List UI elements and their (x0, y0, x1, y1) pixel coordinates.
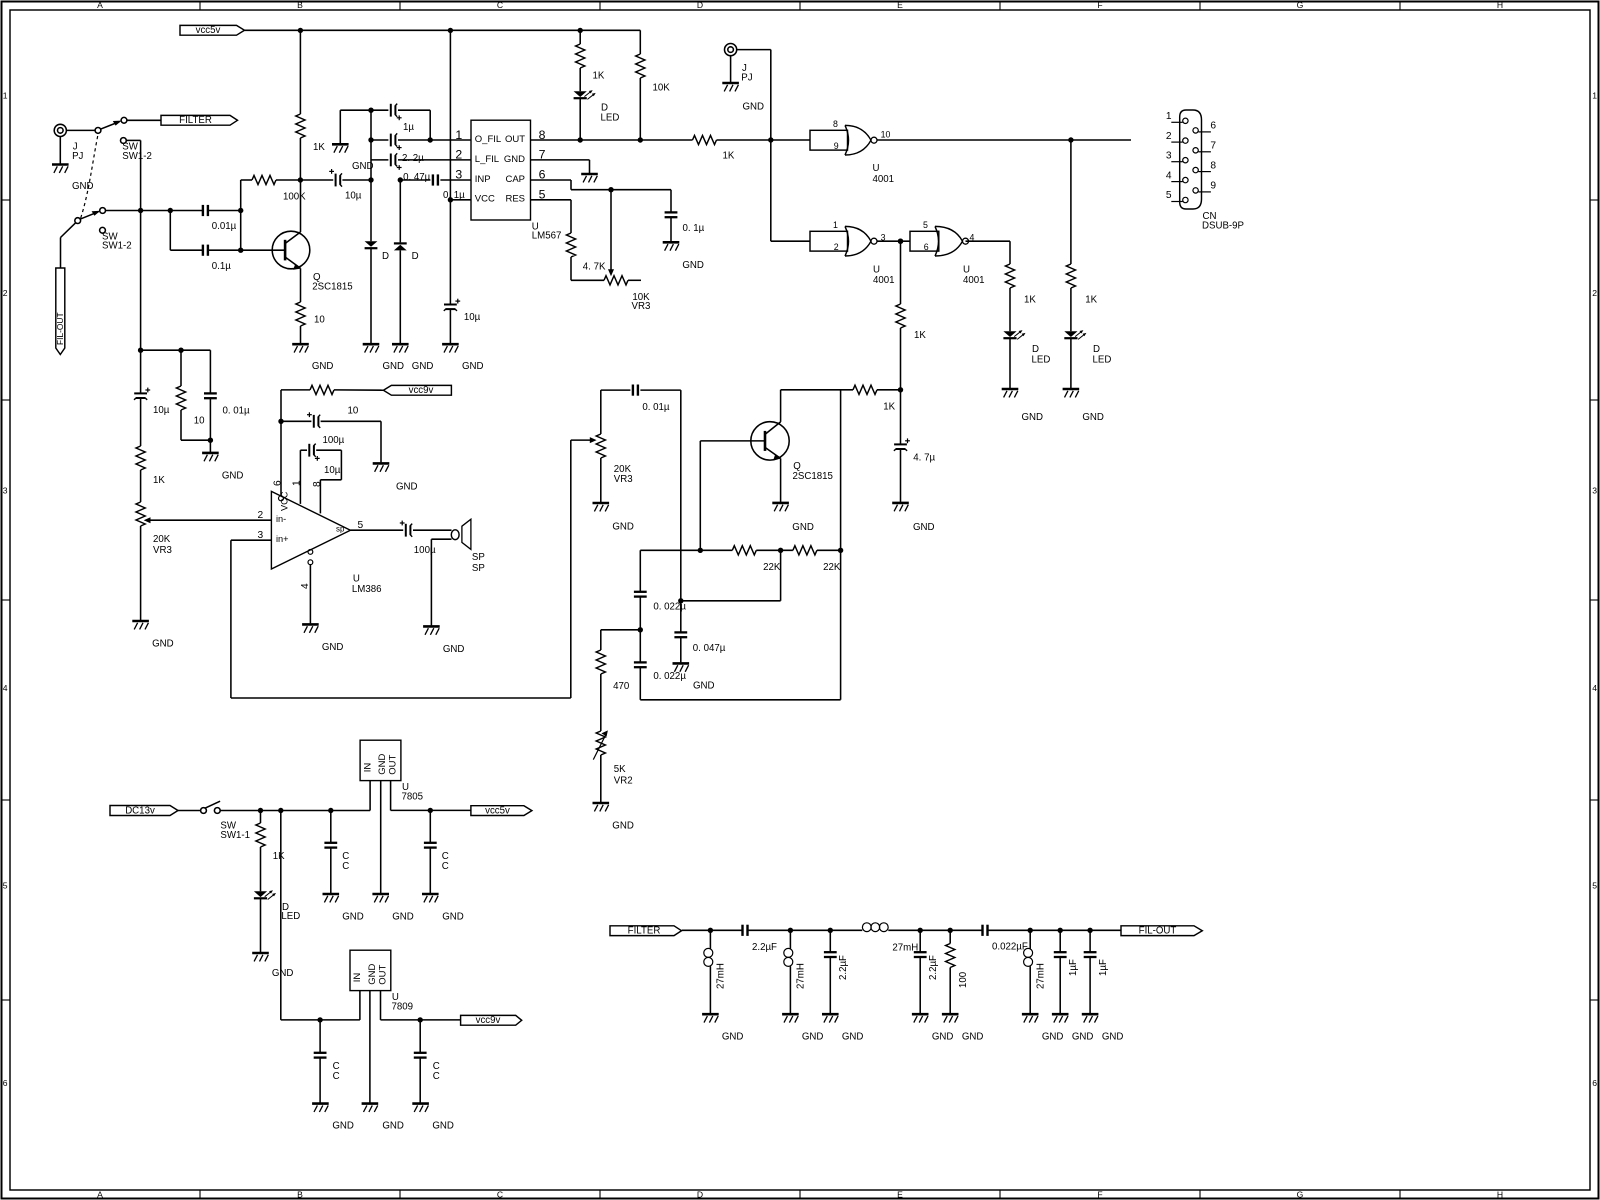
svg-text:0.1µ: 0.1µ (212, 261, 231, 272)
svg-text:D: D (697, 1189, 703, 1199)
capacitor 100u (output) (400, 521, 452, 556)
svg-text:FIL-OUT: FIL-OUT (1139, 926, 1177, 937)
wire gate net down (771, 140, 810, 241)
svg-text:B: B (297, 0, 303, 10)
ground led D4 (1002, 389, 1043, 423)
svg-text:C: C (433, 1071, 440, 1082)
node vcc5v/R2 (578, 28, 583, 33)
wire twin-T bottom (640, 550, 840, 700)
svg-text:3: 3 (1166, 150, 1172, 161)
svg-text:LED: LED (281, 911, 300, 922)
svg-text:1: 1 (833, 220, 838, 230)
ground audio RC (202, 440, 243, 481)
svg-text:10: 10 (194, 415, 205, 426)
resistor R16 100 (946, 930, 969, 1013)
svg-text:GND: GND (1042, 1031, 1064, 1042)
wire vcc rail x450 (449, 30, 451, 199)
svg-text:GND: GND (412, 361, 434, 372)
svg-text:D: D (382, 251, 389, 262)
op-amp U3 LM386 (271, 491, 381, 595)
svg-text:1K: 1K (313, 142, 325, 153)
svg-text:D: D (697, 0, 703, 10)
node twin-T base (698, 548, 703, 553)
svg-text:1K: 1K (1085, 295, 1097, 306)
node L2 (788, 928, 793, 933)
svg-text:LED: LED (1093, 355, 1112, 366)
svg-text:2. 2µ: 2. 2µ (402, 153, 424, 164)
capacitor 2.2u (371, 153, 471, 170)
switch SW1-2b (75, 208, 132, 252)
svg-text:2SC1815: 2SC1815 (312, 282, 352, 293)
svg-text:GND: GND (693, 680, 715, 691)
svg-text:GND: GND (1072, 1031, 1094, 1042)
capacitor 1uF (a) (1054, 930, 1079, 1013)
capacitor 2.2uF (shunt a) (824, 930, 849, 1013)
wire 7805 IN (369, 781, 371, 811)
svg-text:FILTER: FILTER (628, 926, 661, 937)
wire filter rail 1 (682, 929, 743, 931)
resistor R7 1K (896, 304, 926, 390)
svg-text:FIL-OUT: FIL-OUT (55, 312, 65, 345)
capacitor C4 (414, 1020, 440, 1103)
ground speaker (423, 626, 464, 655)
node pin6/100u (278, 419, 283, 424)
capacitor 0.1u (pin6) (665, 190, 705, 242)
node diode2 (398, 177, 403, 182)
diode D1 (365, 241, 389, 343)
wire collector rail (781, 389, 853, 391)
node gate2 out (898, 239, 903, 244)
capacitor 0.47u (400, 172, 471, 185)
svg-text:0.01µ: 0.01µ (212, 221, 237, 232)
wire speaker gnd (431, 539, 451, 625)
svg-text:C: C (342, 861, 349, 872)
svg-text:GND: GND (722, 1031, 744, 1042)
ground D2 (392, 344, 433, 372)
node L1 (708, 928, 713, 933)
svg-text:2.2µF: 2.2µF (838, 955, 849, 980)
node pin8 net / gate1 (768, 137, 773, 142)
node R100 (948, 928, 953, 933)
svg-text:4001: 4001 (963, 275, 985, 286)
node L4 (1028, 928, 1033, 933)
svg-text:DSUB-9P: DSUB-9P (1202, 221, 1244, 232)
svg-text:GND: GND (1082, 412, 1104, 423)
svg-text:VR3: VR3 (614, 474, 633, 485)
wire Q2 base down (699, 441, 701, 550)
capacitor 1u (b) (371, 133, 471, 150)
wiper VR3 osc (571, 437, 597, 443)
svg-text:100: 100 (958, 971, 969, 988)
capacitor 10u (series) (300, 169, 371, 201)
svg-text:IN: IN (352, 973, 363, 983)
svg-text:1: 1 (455, 128, 462, 142)
capacitor 10u (bootstrap) (300, 444, 341, 514)
svg-text:1: 1 (1592, 91, 1597, 101)
svg-text:RES: RES (505, 194, 525, 205)
ground jack J1 (52, 137, 94, 193)
svg-text:7809: 7809 (392, 1002, 414, 1013)
svg-text:7805: 7805 (402, 791, 424, 802)
svg-text:SW1-2: SW1-2 (102, 241, 132, 252)
wire cap rail vertical (370, 110, 372, 241)
ground J2 (722, 56, 764, 113)
svg-text:GND: GND (842, 1031, 864, 1042)
node gate1 out / led3 (1068, 137, 1073, 142)
svg-text:GND: GND (743, 102, 765, 113)
resistor R1 1K (296, 30, 326, 180)
ground L4 (1022, 1014, 1064, 1042)
gate U1a 4001 (8,9->10) (771, 119, 894, 185)
led D6 (254, 890, 300, 952)
svg-text:GND: GND (432, 1121, 454, 1132)
wire Q2 collector (780, 390, 782, 422)
svg-text:2: 2 (1592, 288, 1597, 298)
led D4 (1003, 330, 1050, 388)
svg-text:GND: GND (802, 1031, 824, 1042)
svg-text:4: 4 (1166, 170, 1172, 181)
node C7 filt (1058, 928, 1063, 933)
svg-text:1K: 1K (723, 150, 735, 161)
svg-text:U: U (873, 265, 880, 276)
svg-text:INP: INP (475, 174, 491, 185)
wire twin-T left (639, 550, 641, 591)
wire LM567 pin5 (531, 200, 572, 233)
svg-text:0. 022µ: 0. 022µ (653, 602, 686, 613)
svg-text:470: 470 (613, 681, 630, 692)
capacitor 0.047u (674, 601, 725, 663)
ground 4.7u (892, 503, 934, 533)
svg-text:6: 6 (272, 480, 283, 486)
node pin6/wiper (608, 187, 613, 192)
svg-text:A: A (97, 1189, 103, 1199)
svg-text:SW1-2: SW1-2 (122, 151, 152, 162)
ground C2 (422, 894, 464, 922)
svg-text:H: H (1497, 1189, 1503, 1199)
ground C1 (323, 894, 364, 922)
wire vcc5v corner down to R3 (639, 30, 641, 54)
resistor 10 (Q1 emitter) (296, 302, 325, 344)
svg-text:vcc9v: vcc9v (409, 385, 434, 396)
svg-text:27mH: 27mH (795, 963, 806, 989)
svg-text:GND: GND (932, 1031, 954, 1042)
svg-text:GND: GND (462, 361, 484, 372)
wire switch throw2 (126, 140, 140, 210)
net label FIL-OUT (bottom) (1121, 926, 1202, 937)
svg-text:2SC1815: 2SC1815 (793, 471, 833, 482)
svg-text:E: E (897, 1189, 903, 1199)
svg-text:1K: 1K (1024, 295, 1036, 306)
node input/x140 (138, 208, 143, 213)
capacitor 0.022u (a) (634, 592, 686, 630)
svg-text:VR3: VR3 (632, 301, 651, 312)
svg-text:in-: in- (276, 514, 286, 524)
wire J2 to gate net (737, 50, 771, 140)
svg-text:3: 3 (3, 486, 8, 496)
svg-text:U: U (873, 163, 880, 174)
svg-text:GND: GND (392, 911, 414, 922)
resistor R8 1K (853, 385, 901, 412)
wire vcc5v rail (245, 29, 641, 31)
inductor L2 27mH (784, 930, 807, 1013)
node pin1 cap (428, 137, 433, 142)
wire Q1 emitter (300, 268, 302, 302)
wire gate2 out (877, 240, 910, 242)
wire pin5 to VR3 (571, 279, 604, 281)
resistor R11 470 (596, 650, 630, 731)
capacitor 0.022uF (series) (983, 925, 1028, 953)
ground 7805 (372, 894, 413, 922)
svg-text:sp: sp (336, 524, 345, 533)
node C in (328, 808, 333, 813)
ground 1uF b (1082, 1014, 1124, 1042)
ground LM567 pin7 (581, 174, 598, 182)
svg-text:GND: GND (792, 522, 814, 533)
svg-text:4: 4 (1592, 683, 1597, 693)
node audio rail mid (178, 348, 183, 353)
regulator U5 7809 (350, 950, 413, 1012)
svg-text:1K: 1K (914, 330, 926, 341)
svg-text:22K: 22K (763, 562, 781, 573)
wire VCC pin (443, 190, 471, 201)
wire midpoint dogleg (681, 550, 781, 601)
wire gate2out down (900, 241, 902, 304)
capacitor C2 (424, 810, 449, 893)
capacitor C3 (314, 1020, 340, 1103)
inductor L3 27mH (series) (862, 923, 918, 954)
capacitor 4.7u (894, 390, 936, 502)
svg-text:6: 6 (3, 1078, 8, 1088)
svg-text:1K: 1K (273, 851, 285, 862)
svg-text:VR3: VR3 (153, 545, 172, 556)
diode D2 (394, 180, 419, 344)
svg-text:10µ: 10µ (324, 465, 341, 476)
svg-text:1µF: 1µF (1098, 959, 1109, 976)
capacitor 10u (audio in) (134, 350, 170, 446)
svg-text:10µ: 10µ (153, 405, 170, 416)
ground C3 (312, 1104, 354, 1132)
svg-text:GND: GND (152, 638, 174, 649)
svg-text:vcc9v: vcc9v (476, 1015, 501, 1026)
inductor L4 27mH (1024, 930, 1047, 1013)
ground R16 (942, 1014, 984, 1042)
wire twin-T right up (840, 390, 842, 551)
node audio gnd (208, 438, 213, 443)
wire twin-T top (640, 549, 732, 551)
svg-text:4001: 4001 (873, 275, 895, 286)
svg-text:F: F (1097, 1189, 1102, 1199)
svg-text:10µ: 10µ (345, 190, 362, 201)
ground 7809 (362, 1104, 404, 1132)
svg-text:2.2µF: 2.2µF (928, 955, 939, 980)
svg-text:B: B (297, 1189, 303, 1199)
wire x140 middle (140, 211, 142, 351)
wire feedback vertical (240, 180, 242, 250)
wire gate1 out (877, 139, 1131, 141)
svg-text:A: A (97, 0, 103, 10)
svg-text:GND: GND (332, 1121, 354, 1132)
net label FILTER (bottom) (610, 926, 682, 937)
svg-text:SW1-1: SW1-1 (220, 830, 250, 841)
svg-text:0. 47µ: 0. 47µ (403, 172, 431, 183)
svg-text:GND: GND (272, 968, 294, 979)
node led branch (258, 808, 263, 813)
ground Q1 emitter (292, 344, 333, 372)
ground led D5 (1063, 389, 1104, 423)
capacitor 0.1u (input) (203, 245, 231, 272)
node 7809 C in (317, 1017, 322, 1022)
wire 7809 GND (369, 991, 371, 1103)
node base (238, 248, 243, 253)
ground vcc bypass (442, 344, 483, 372)
svg-text:C: C (442, 861, 449, 872)
svg-text:100µ: 100µ (414, 545, 436, 556)
ground 100u (373, 421, 418, 492)
node input/C0.1u (168, 208, 173, 213)
node 7809 branch (278, 808, 283, 813)
wire SW to 7805 (220, 810, 370, 812)
svg-text:PJ: PJ (72, 151, 83, 162)
svg-text:10: 10 (314, 315, 325, 326)
svg-text:4: 4 (3, 683, 8, 693)
node twin-T right (838, 548, 843, 553)
wire filter rail 2 (748, 929, 863, 931)
svg-text:20K: 20K (153, 534, 171, 545)
svg-text:9: 9 (1210, 181, 1216, 192)
svg-text:GND: GND (962, 1031, 984, 1042)
svg-text:CAP: CAP (505, 174, 525, 185)
svg-text:10: 10 (881, 130, 891, 140)
svg-text:VR2: VR2 (614, 775, 633, 786)
ground VR3 vol (132, 621, 173, 649)
node diode1 (368, 177, 373, 182)
ground 1uF a (1052, 1014, 1094, 1042)
wire VR3 wiper (608, 190, 614, 277)
svg-text:in+: in+ (276, 534, 289, 544)
svg-text:5: 5 (3, 881, 8, 891)
svg-text:5: 5 (1592, 881, 1597, 891)
wire jack to switch (66, 129, 95, 131)
svg-text:GND: GND (383, 361, 405, 372)
wire 7805 GND (380, 781, 382, 893)
svg-text:GND: GND (72, 181, 94, 192)
capacitor 1uF (b) (1084, 930, 1109, 1013)
svg-text:FILTER: FILTER (179, 115, 212, 126)
capacitor 0.01u (osc) (601, 385, 681, 413)
capacitor C1 (324, 811, 349, 894)
node C8 filt (1087, 928, 1092, 933)
capacitor 10u (vcc bypass) (444, 200, 481, 344)
wiper VR3 vol (144, 517, 272, 523)
svg-text:IN: IN (362, 763, 373, 773)
svg-text:GND: GND (322, 642, 344, 653)
svg-text:5K: 5K (614, 764, 626, 775)
svg-text:U: U (963, 265, 970, 276)
capacitor 0.01u (audio) (204, 350, 250, 440)
svg-text:GND: GND (367, 964, 378, 985)
svg-text:6: 6 (1592, 1078, 1597, 1088)
svg-text:7: 7 (1210, 140, 1216, 151)
svg-text:GND: GND (1102, 1031, 1124, 1042)
svg-text:0. 022µ: 0. 022µ (653, 671, 686, 682)
svg-text:G: G (1297, 0, 1304, 10)
switch SW1-1 (201, 801, 250, 841)
wire out pin5 (350, 520, 403, 531)
capacitor 0.01u (input) (203, 205, 237, 232)
node vcc5v/R1 (298, 28, 303, 33)
regulator U4 7805 (360, 740, 423, 802)
svg-text:DC13v: DC13v (125, 806, 155, 817)
capacitor 2.2uF (shunt b) (914, 930, 939, 1013)
wire filter rail 3 (888, 929, 982, 931)
resistor R12 1K (136, 446, 165, 502)
svg-text:0. 01µ: 0. 01µ (642, 402, 670, 413)
node mid 22K (778, 548, 783, 553)
svg-text:GND: GND (396, 482, 418, 493)
svg-text:H: H (1497, 0, 1503, 10)
potentiometer VR3 10K (604, 276, 650, 312)
node base top (238, 208, 243, 213)
wire LM567 pin7 gnd (531, 160, 590, 173)
node LM567 VCC (448, 197, 453, 202)
wire pin8 (312, 481, 323, 487)
resistor R15 1K (256, 811, 285, 892)
svg-text:4001: 4001 (873, 174, 895, 185)
net label DC13v (110, 806, 178, 817)
resistor R3 10K (636, 54, 671, 140)
svg-text:10: 10 (348, 405, 359, 416)
svg-text:GND: GND (377, 754, 388, 775)
svg-text:10µ: 10µ (464, 312, 481, 323)
wire led3 branch (1070, 140, 1072, 264)
svg-text:1K: 1K (883, 402, 895, 413)
svg-text:8: 8 (833, 119, 838, 129)
svg-text:GND: GND (443, 644, 465, 655)
connector J2 PJ (725, 44, 753, 84)
wire 0.1u to base (208, 249, 241, 251)
ground L2 (782, 1014, 823, 1042)
wire 0.01u down (680, 390, 682, 601)
switch SW1-2a (95, 117, 152, 161)
svg-text:GND: GND (913, 522, 935, 533)
resistor R2 1K (576, 30, 605, 91)
node audio rail left (138, 348, 143, 353)
capacitor 100u (vcc filter) (281, 412, 381, 446)
resistor 4.7K (566, 233, 606, 280)
svg-text:GND: GND (504, 154, 525, 165)
svg-text:5: 5 (1166, 190, 1172, 201)
wire 470 branch (601, 630, 641, 650)
wire in+ pin3 (231, 530, 272, 698)
svg-text:E: E (897, 0, 903, 10)
svg-text:LM567: LM567 (532, 231, 562, 242)
svg-text:OUT: OUT (377, 965, 388, 985)
wire pin4 gnd (300, 550, 313, 624)
wire filter rail 4 (988, 929, 1121, 931)
capacitor 1u (a) (371, 104, 430, 133)
svg-text:2.2µF: 2.2µF (752, 942, 777, 953)
wire 7809 feed (281, 811, 360, 1020)
svg-text:2: 2 (834, 242, 839, 252)
svg-text:4: 4 (300, 583, 311, 589)
svg-text:9: 9 (834, 141, 839, 151)
wire pin1 (291, 450, 302, 504)
ground VR3 osc (593, 503, 634, 532)
wire switch to FILTER label (127, 119, 161, 121)
svg-text:2: 2 (1166, 131, 1172, 142)
svg-text:100µ: 100µ (323, 435, 345, 446)
gate U1b 4001 (1,2->3) (810, 220, 895, 286)
